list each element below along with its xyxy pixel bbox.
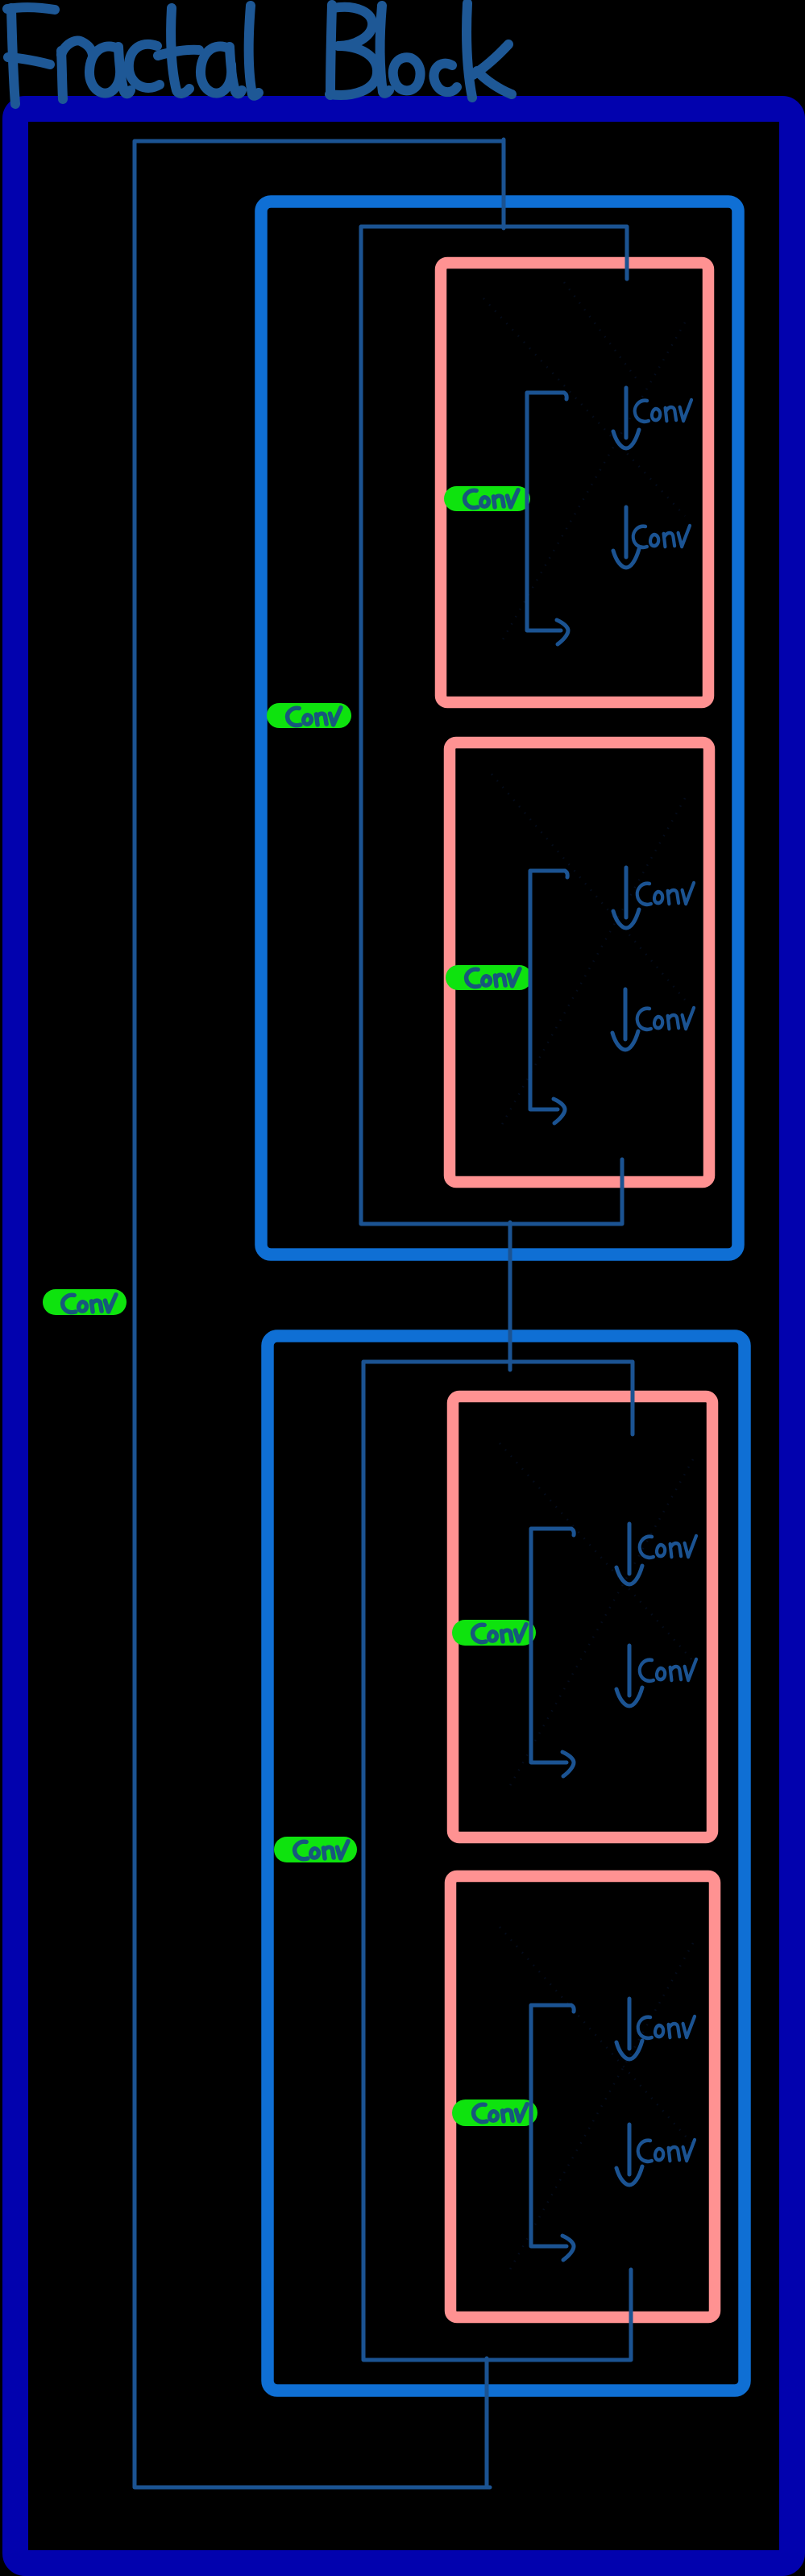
conv arrow 1 in box 2	[613, 868, 639, 928]
f1 conv-pair box 1	[441, 263, 708, 702]
trunk wire out of bottom block	[485, 2358, 489, 2487]
conv pill C	[444, 486, 530, 511]
title: Fractal Block	[7, 3, 512, 104]
conv label 1 in box 3	[640, 1536, 696, 1558]
conv pill D	[446, 965, 532, 990]
conv pill F	[274, 1837, 357, 1862]
conv label 2 in box 3	[640, 1659, 696, 1681]
f1 conv-pair box 2	[450, 743, 709, 1182]
level-2 join loop (top block)	[361, 227, 627, 1224]
trunk wire into top f3 block	[502, 139, 506, 228]
trunk wire between blocks	[508, 1222, 512, 1370]
f3 sub-block box (top)	[261, 202, 738, 1255]
conv pill E	[452, 1620, 536, 1646]
conv arrow 2 in box 1	[613, 507, 639, 568]
conv arrow 2 in box 3	[616, 1646, 642, 1706]
conv arrow 1 in box 4	[616, 1999, 642, 2059]
conv arrow 1 in box 1	[613, 388, 639, 448]
skip bracket arrow in box 4	[531, 2005, 574, 2260]
skip bracket arrow in box 3	[531, 1529, 574, 1776]
outer join wire (level-1 conv branch loop)	[135, 141, 504, 2487]
conv label 1 in box 4	[638, 2016, 695, 2038]
conv label 2 in box 4	[638, 2140, 695, 2162]
level-2 join loop (bottom block)	[363, 1362, 633, 2360]
conv pill B	[267, 703, 351, 728]
conv pill G	[452, 2100, 537, 2126]
conv label 2 in box 2	[637, 1008, 694, 1030]
f1 conv-pair box 4	[450, 1876, 715, 2317]
skip bracket arrow in box 2	[530, 871, 567, 1123]
f3 sub-block box (bottom)	[268, 1336, 745, 2391]
conv pill A	[43, 1289, 127, 1315]
conv arrow 2 in box 2	[612, 989, 638, 1050]
skip bracket arrow in box 1	[527, 393, 568, 644]
conv label 2 in box 1	[633, 526, 690, 547]
conv arrow 2 in box 4	[616, 2124, 642, 2185]
faint sketch marks	[483, 282, 693, 2274]
conv label 1 in box 1	[635, 400, 691, 422]
conv label 1 in box 2	[637, 883, 694, 905]
f1 conv-pair box 3	[453, 1396, 712, 1837]
conv arrow 1 in box 3	[616, 1524, 642, 1584]
